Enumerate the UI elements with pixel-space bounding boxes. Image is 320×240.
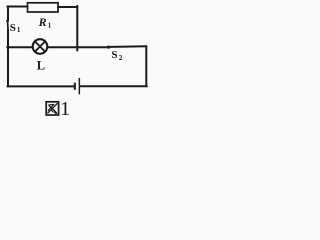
svg-text:1: 1 xyxy=(48,21,52,29)
svg-text:R: R xyxy=(38,15,47,29)
svg-text:1: 1 xyxy=(60,98,70,120)
svg-text:1: 1 xyxy=(17,26,21,34)
svg-text:S: S xyxy=(10,22,16,34)
svg-text:S: S xyxy=(111,49,117,61)
svg-text:2: 2 xyxy=(119,54,123,62)
svg-text:L: L xyxy=(37,58,45,72)
